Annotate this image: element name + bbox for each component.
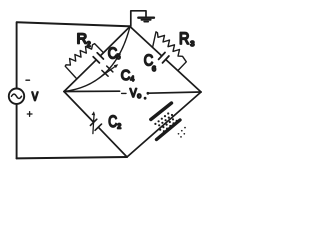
svg-text:o: o — [137, 93, 141, 100]
svg-text:2: 2 — [117, 124, 121, 131]
svg-text:R: R — [77, 32, 87, 48]
svg-text:C: C — [108, 113, 117, 131]
svg-text:5: 5 — [117, 54, 121, 61]
svg-text:V: V — [130, 88, 137, 100]
svg-text:3: 3 — [190, 39, 194, 48]
svg-text:6: 6 — [152, 66, 156, 73]
svg-text:R: R — [179, 30, 190, 48]
svg-text:2: 2 — [87, 42, 91, 49]
svg-text:V: V — [32, 89, 38, 103]
svg-text:4: 4 — [130, 76, 134, 83]
svg-text:C: C — [121, 67, 131, 84]
